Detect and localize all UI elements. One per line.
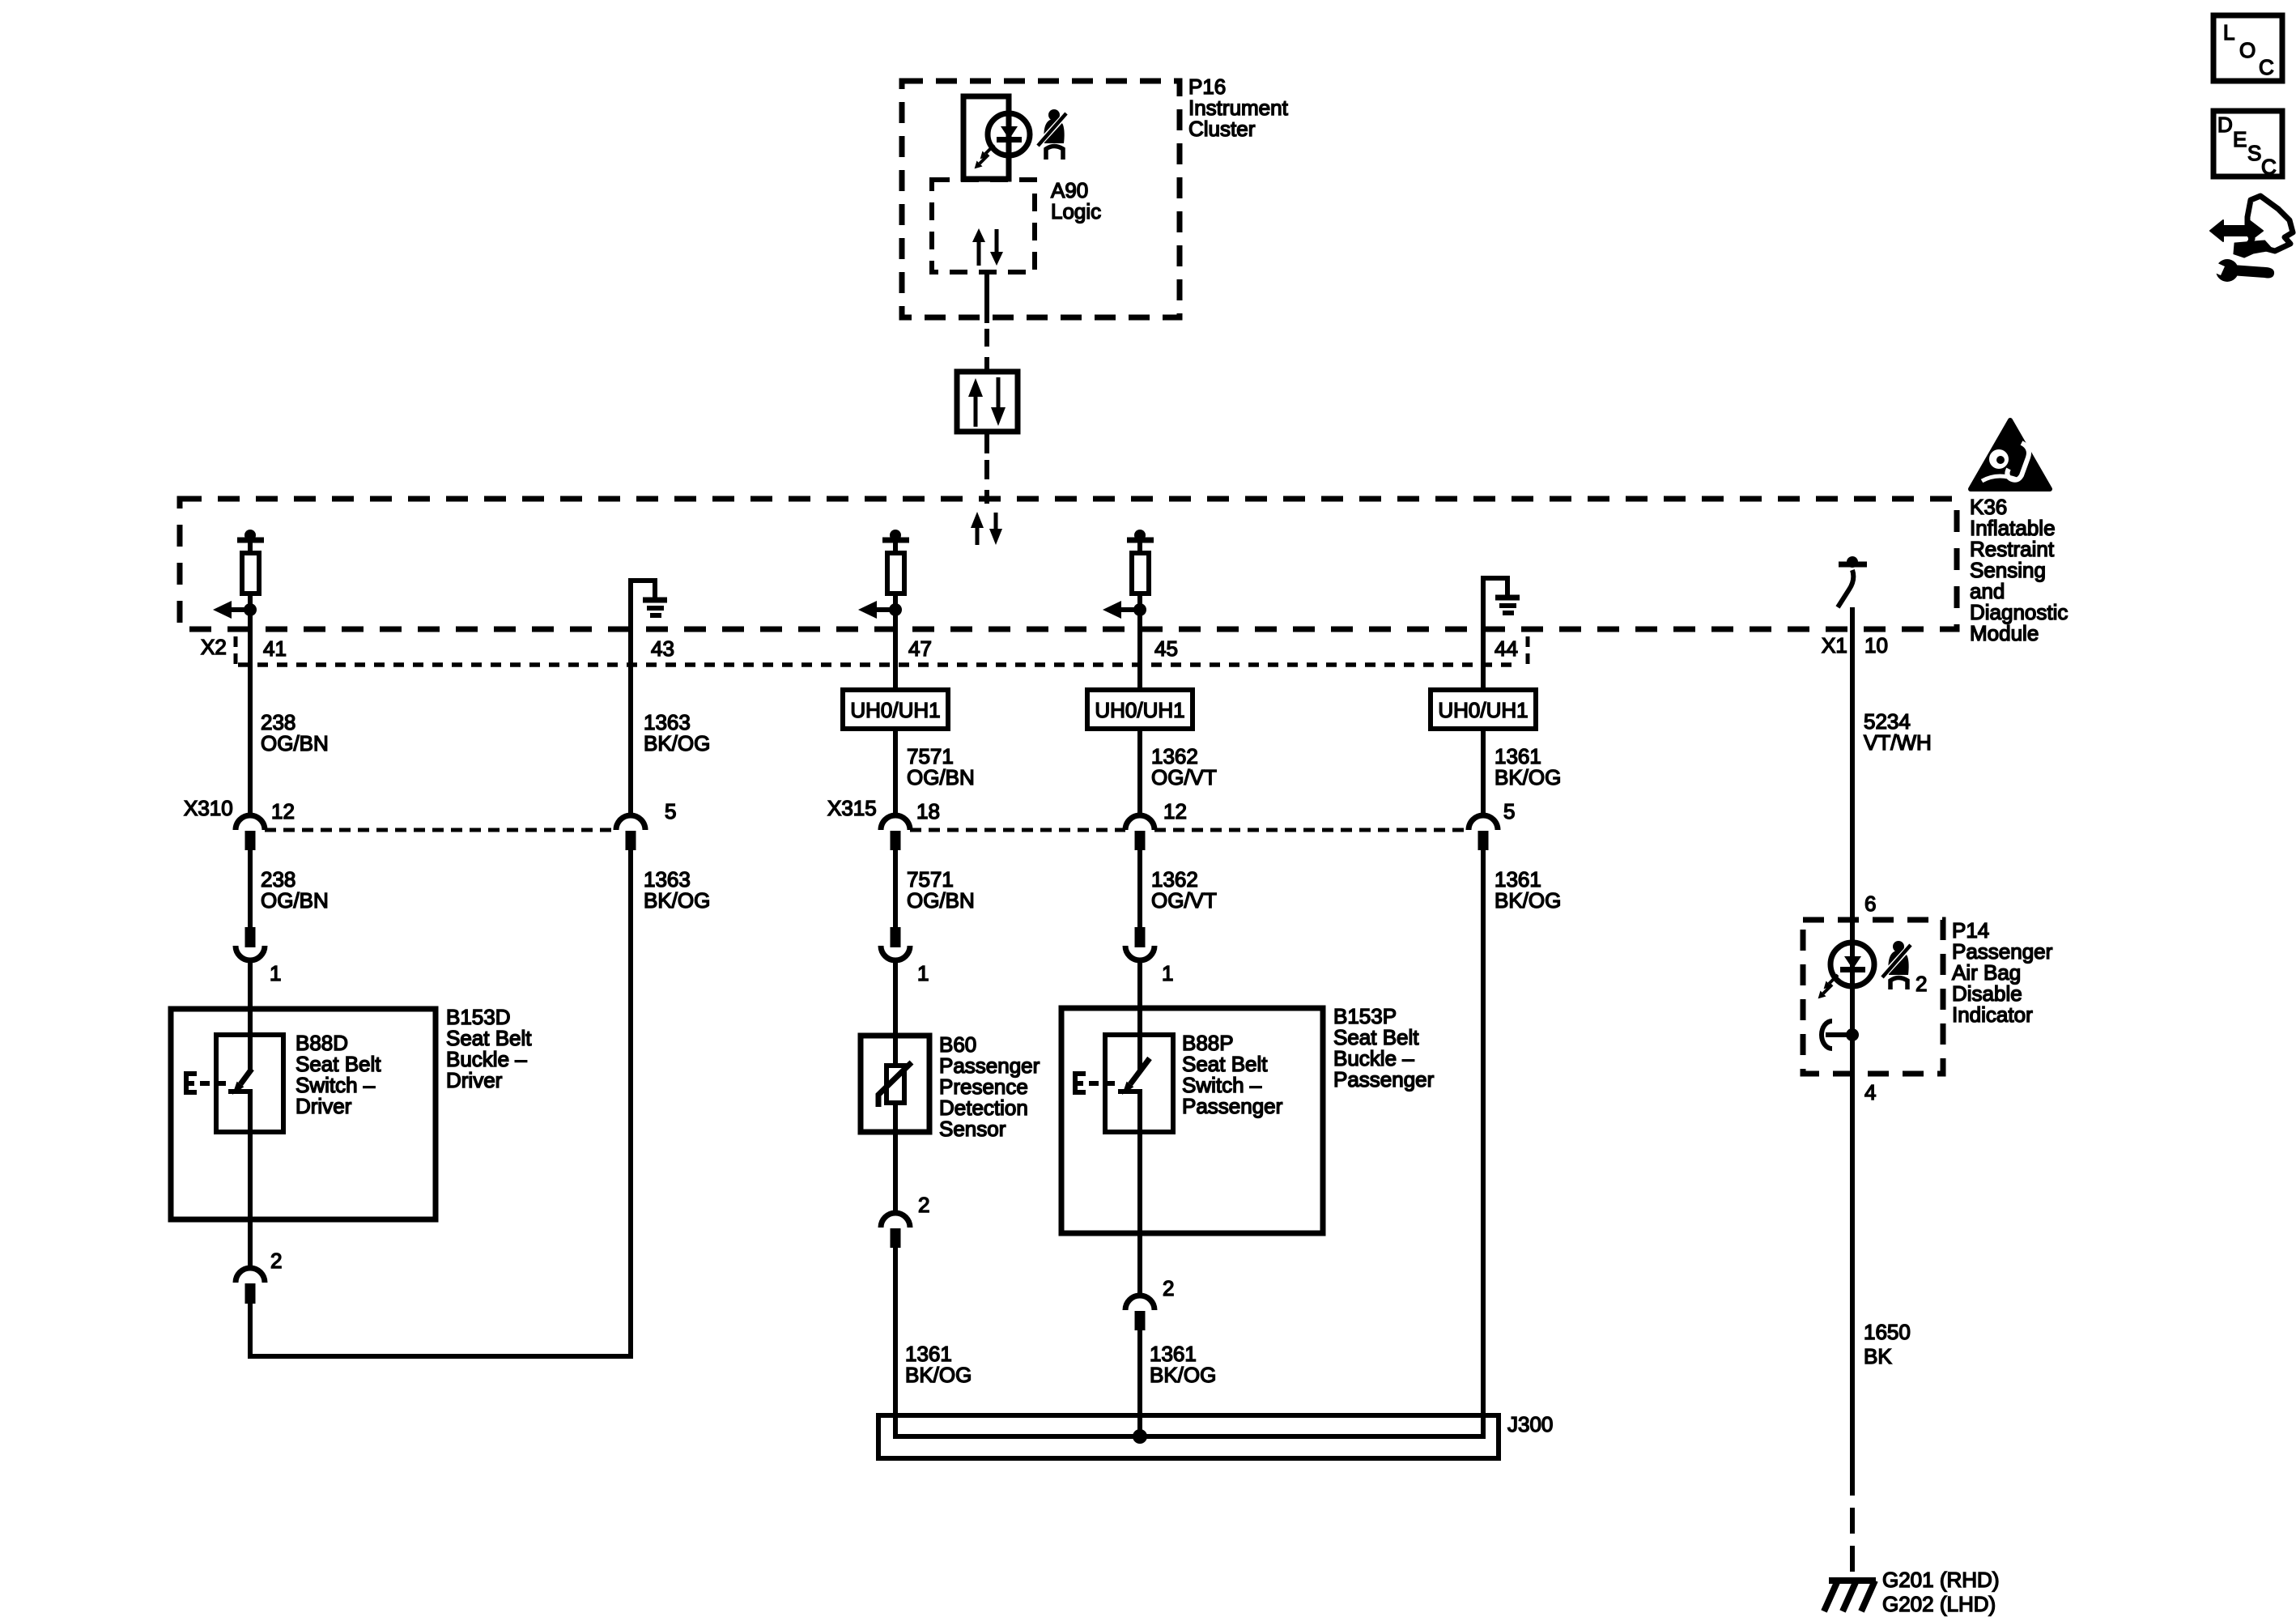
- svg-text:BK/OG: BK/OG: [1150, 1363, 1216, 1387]
- resistor R-C (B60 signal): [882, 530, 909, 610]
- svg-text:OG/BN: OG/BN: [261, 731, 329, 755]
- svg-text:5: 5: [665, 799, 676, 823]
- wire 1363 label lower: [644, 867, 710, 913]
- svg-text:OG/BN: OG/BN: [907, 765, 975, 789]
- svg-text:OG/VT: OG/VT: [1151, 765, 1217, 789]
- serial data symbol box: [957, 372, 1018, 432]
- wire B153D to pin2 A: [248, 1132, 253, 1268]
- serial data wire from box to K36: [984, 432, 989, 453]
- wire col A to pin1: [248, 849, 253, 927]
- B153D label: [446, 1005, 532, 1092]
- svg-text:BK/OG: BK/OG: [644, 731, 710, 755]
- svg-text:12: 12: [1163, 799, 1187, 823]
- P16 label: [1188, 74, 1289, 141]
- pin1 connector A: [236, 927, 281, 985]
- wire col D to pin1: [1137, 849, 1142, 927]
- LED circle: [988, 113, 1030, 155]
- X315 connector D: [1125, 815, 1154, 850]
- svg-text:OG/BN: OG/BN: [261, 888, 329, 913]
- P14 dashed box: [1803, 920, 1943, 1074]
- wire col D X2 to UH box: [1137, 665, 1142, 690]
- B88P switch symbol: [1118, 1008, 1150, 1132]
- LED light arrows: [975, 145, 994, 168]
- ground sym col B (pin 43): [631, 581, 667, 665]
- X2 right bracket: [1526, 636, 1530, 667]
- wire 238 col A X2 to X310: [248, 665, 253, 813]
- svg-text:Module: Module: [1970, 621, 2039, 645]
- svg-text:6: 6: [1864, 891, 1876, 916]
- LED diode triangle: [1001, 126, 1018, 139]
- chassis ground G201/G202: [1824, 1581, 1876, 1611]
- ground sym col E (pin 44): [1483, 578, 1520, 665]
- K36 module dashed box: [180, 499, 1957, 629]
- svg-text:1: 1: [1162, 961, 1173, 985]
- switch sym col F (X1-10): [1838, 556, 1867, 607]
- B88P label: [1182, 1031, 1283, 1118]
- wire col C to pin1: [893, 849, 898, 927]
- B88P switch box: [1105, 1035, 1173, 1132]
- svg-text:C: C: [2259, 55, 2274, 79]
- svg-text:Logic: Logic: [1051, 199, 1101, 223]
- arrow out (pin 47 signal): [858, 601, 902, 619]
- UH0/UH1 box E: [1431, 690, 1536, 729]
- wire 7571 col C to X315: [893, 729, 898, 815]
- wire 1650 label: [1864, 1320, 1911, 1368]
- A90 logic dashed box: [932, 180, 1035, 272]
- wire 1361 label lower: [1495, 867, 1561, 913]
- pin1 connector C: [881, 927, 929, 985]
- svg-text:X315: X315: [827, 796, 877, 820]
- svg-text:S: S: [2247, 141, 2261, 165]
- svg-text:2: 2: [1915, 972, 1927, 996]
- svg-text:X2: X2: [201, 635, 227, 659]
- pin2 connector A: [236, 1249, 282, 1304]
- wire col C X2 to UH box: [893, 665, 898, 690]
- J300 splice box: [878, 1415, 1499, 1458]
- svg-text:VT/WH: VT/WH: [1864, 730, 1932, 755]
- svg-text:OG/VT: OG/VT: [1151, 888, 1217, 913]
- svg-text:1650: 1650: [1864, 1320, 1911, 1344]
- wire 1362 label: [1151, 744, 1217, 789]
- pin1 connector D: [1125, 927, 1173, 985]
- P14 LED circle: [1830, 943, 1874, 986]
- X2 left bracket: [234, 636, 238, 665]
- X315 connector E: [1469, 815, 1498, 850]
- wire 7571 label: [907, 744, 975, 789]
- serial data wire from A90 to serial symbol: [984, 272, 989, 323]
- svg-text:BK/OG: BK/OG: [644, 888, 710, 913]
- wire pin1 to B60: [893, 960, 898, 1036]
- dashed wire to ground: [1850, 1508, 1855, 1577]
- J300 bus wire C-D-E: [895, 849, 1483, 1436]
- wire col A inside K36: [248, 610, 253, 665]
- wire col A to X310 arc: [248, 813, 253, 815]
- svg-text:BK/OG: BK/OG: [1495, 765, 1561, 789]
- svg-text:1: 1: [917, 961, 929, 985]
- svg-text:18: 18: [916, 799, 940, 823]
- indicator lamp housing: [963, 96, 1009, 179]
- wire 1361 label C lower: [905, 1342, 972, 1387]
- wire D into bus: [1137, 1330, 1142, 1436]
- P14 LED diode: [1844, 956, 1861, 969]
- wire 1362 label lower: [1151, 867, 1217, 913]
- seat belt icon P14: [1882, 941, 1927, 996]
- K36 label: [1970, 495, 2068, 645]
- arrow out (pin 41 signal): [213, 601, 257, 619]
- svg-text:G201 (RHD): G201 (RHD): [1882, 1568, 1999, 1592]
- DESC legend box: [2213, 111, 2282, 179]
- B88D actuator E: [186, 1074, 226, 1092]
- svg-text:X1: X1: [1822, 633, 1847, 657]
- B60 sensor box: [861, 1036, 929, 1132]
- B88P actuator E: [1075, 1074, 1115, 1092]
- svg-text:45: 45: [1154, 636, 1178, 661]
- serial box arrows: [968, 377, 1006, 427]
- svg-text:J300: J300: [1507, 1412, 1553, 1436]
- P14 LED light arrows: [1818, 975, 1838, 998]
- svg-text:47: 47: [908, 636, 932, 661]
- svg-text:BK/OG: BK/OG: [1495, 888, 1561, 913]
- wire col C inside K36: [893, 610, 898, 665]
- wire 1361 col E to X315: [1481, 729, 1486, 815]
- svg-text:C: C: [2261, 155, 2277, 179]
- LED cathode bar: [997, 137, 1022, 143]
- svg-text:Sensor: Sensor: [939, 1117, 1006, 1141]
- B88D switch symbol: [228, 1009, 252, 1132]
- wire col E X2 to UH box: [1481, 665, 1486, 690]
- svg-text:12: 12: [271, 799, 295, 823]
- resistor R-A (driver signal): [237, 530, 264, 610]
- svg-text:BK/OG: BK/OG: [905, 1363, 972, 1387]
- svg-text:Passenger: Passenger: [1333, 1067, 1435, 1091]
- B153P buckle box: [1061, 1008, 1323, 1233]
- seat belt icon P16: [1038, 109, 1066, 160]
- wire 238 label lower: [261, 867, 329, 913]
- P16 instrument cluster dashed box: [902, 81, 1180, 317]
- svg-text:UH0/UH1: UH0/UH1: [1438, 698, 1528, 722]
- A90 serial arrows: [972, 228, 1003, 266]
- svg-text:BK: BK: [1864, 1344, 1892, 1368]
- resistor R-D (B88P signal): [1127, 530, 1154, 610]
- wire 7571 label lower: [907, 867, 975, 913]
- svg-text:G202 (LHD): G202 (LHD): [1882, 1592, 1996, 1616]
- B153P label: [1333, 1004, 1435, 1091]
- X310 connector A: [236, 815, 265, 850]
- P14 lamp return terminal: [1822, 1021, 1859, 1049]
- UH0/UH1 box C: [843, 690, 948, 729]
- SRS warning triangle: [1971, 420, 2050, 489]
- svg-text:43: 43: [651, 636, 674, 661]
- svg-text:O: O: [2239, 38, 2256, 62]
- wire 1361 label D lower: [1150, 1342, 1216, 1387]
- B153D buckle box: [171, 1009, 436, 1219]
- wire 1650 down: [1850, 1074, 1855, 1496]
- wire pin1 to B153D: [248, 960, 253, 1009]
- P14 label: [1952, 918, 2053, 1027]
- arrow out (pin 45 signal): [1103, 601, 1146, 619]
- B60 label: [939, 1032, 1040, 1141]
- wire 1363 label: [644, 710, 710, 755]
- serial arrows inside K36: [971, 512, 1002, 545]
- A90 label: [1051, 178, 1101, 223]
- svg-text:Driver: Driver: [296, 1094, 352, 1118]
- svg-text:UH0/UH1: UH0/UH1: [1095, 698, 1184, 722]
- X310 dotted line: [265, 828, 616, 832]
- wire 5234 col F X2 to P14: [1850, 665, 1855, 920]
- svg-text:Cluster: Cluster: [1188, 117, 1256, 141]
- X315 dotted line: [910, 828, 1469, 832]
- wire through P14: [1850, 920, 1855, 1074]
- X310 connector B: [616, 815, 645, 850]
- pin2 connector D: [1125, 1276, 1174, 1330]
- X2 connector dotted line: [238, 662, 1520, 667]
- svg-text:L: L: [2223, 20, 2234, 45]
- UH0/UH1 box D: [1087, 690, 1193, 729]
- wire col D inside K36: [1137, 610, 1142, 665]
- svg-text:41: 41: [263, 636, 287, 661]
- wire 238 label: [261, 710, 329, 755]
- svg-text:Indicator: Indicator: [1952, 1002, 2033, 1027]
- G201 G202 labels: [1882, 1568, 1999, 1616]
- svg-text:1: 1: [270, 961, 281, 985]
- svg-text:44: 44: [1495, 636, 1518, 661]
- X315 connector C: [881, 815, 910, 850]
- svg-text:10: 10: [1864, 633, 1888, 657]
- svg-text:OG/BN: OG/BN: [907, 888, 975, 913]
- svg-text:2: 2: [1163, 1276, 1174, 1300]
- B88D switch box: [216, 1035, 283, 1132]
- svg-text:2: 2: [270, 1249, 282, 1273]
- wire pin1 to B153P: [1137, 960, 1142, 1008]
- svg-text:Driver: Driver: [446, 1068, 503, 1092]
- wire 1363 col B X2 to X310: [628, 665, 633, 815]
- svg-text:4: 4: [1864, 1080, 1876, 1104]
- svg-text:5: 5: [1503, 799, 1515, 823]
- wire 1361 label: [1495, 744, 1561, 789]
- wire 5234 label: [1864, 709, 1932, 755]
- B88D label: [296, 1031, 381, 1118]
- B60 sensor symbol: [878, 1036, 912, 1132]
- wire B60 to pin2 C: [893, 1132, 898, 1213]
- wire B153P to pin2 D: [1137, 1132, 1142, 1296]
- junction dot J300: [1133, 1429, 1147, 1444]
- svg-text:UH0/UH1: UH0/UH1: [850, 698, 940, 722]
- wire 1362 col D to X315: [1137, 729, 1142, 815]
- wire col F to X2 line: [1850, 607, 1855, 665]
- driver loop wire A down and right to B: [250, 849, 631, 1356]
- svg-text:X310: X310: [184, 796, 233, 820]
- svg-text:Passenger: Passenger: [1182, 1094, 1283, 1118]
- svg-text:D: D: [2217, 113, 2233, 137]
- svg-text:E: E: [2233, 127, 2247, 151]
- pin2 connector C: [881, 1193, 929, 1248]
- service/diagnostic hand-arrow-wrench icon: [2205, 196, 2293, 282]
- LOC legend box: [2213, 15, 2282, 81]
- svg-text:2: 2: [918, 1193, 929, 1217]
